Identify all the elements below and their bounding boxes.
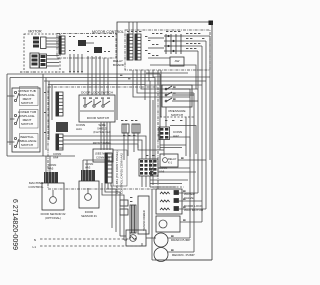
svg-text:SENSOR #1: SENSOR #1	[81, 214, 97, 218]
svg-text:AA2: AA2	[173, 134, 179, 138]
svg-text:6 2714820-0099: 6 2714820-0099	[11, 199, 18, 250]
svg-text:AA6: AA6	[159, 170, 165, 174]
svg-text:L1: L1	[33, 245, 37, 249]
svg-text:K-1: K-1	[168, 161, 173, 165]
svg-text:FRONT PANEL: FRONT PANEL	[93, 141, 112, 145]
svg-text:WAX MOTOR: WAX MOTOR	[184, 208, 204, 212]
svg-text:SWITCH: SWITCH	[21, 143, 33, 147]
svg-text:WIRE: WIRE	[98, 123, 105, 127]
svg-text:(OPTIONAL): (OPTIONAL)	[45, 216, 61, 220]
svg-text:BOARD: BOARD	[113, 63, 125, 67]
svg-text:CONTROL CARD) CONN AA2: CONTROL CARD) CONN AA2	[120, 153, 124, 194]
svg-text:SWITCH: SWITCH	[171, 113, 183, 117]
svg-text:AW: AW	[175, 59, 180, 63]
svg-text:DRAIN PUMP: DRAIN PUMP	[171, 238, 190, 242]
svg-text:RELAY: RELAY	[168, 157, 177, 161]
svg-text:VALVE: VALVE	[184, 196, 194, 200]
svg-text:DOOR SWITCH: DOOR SWITCH	[87, 116, 109, 120]
svg-text:AA3: AA3	[85, 166, 91, 170]
svg-text:DOOR LOCK SWITCH: DOOR LOCK SWITCH	[81, 91, 113, 95]
svg-text:CONN 4B1 (TO FRONT PANEL): CONN 4B1 (TO FRONT PANEL)	[115, 150, 119, 194]
svg-text:MOTOR: MOTOR	[28, 30, 42, 34]
svg-text:AA5: AA5	[48, 167, 54, 171]
svg-text:RECIRC. PUMP: RECIRC. PUMP	[172, 253, 195, 257]
svg-text:N: N	[34, 238, 36, 242]
svg-text:(Foil Side Out): (Foil Side Out)	[93, 130, 110, 134]
svg-text:SWITCH: SWITCH	[21, 122, 33, 126]
svg-text:TRANSFORMER: TRANSFORMER	[142, 210, 146, 231]
svg-text:SWITCH: SWITCH	[21, 101, 33, 105]
svg-text:AA1: AA1	[76, 127, 82, 131]
svg-text:MOTOR CONTROL: MOTOR CONTROL	[92, 30, 124, 34]
svg-text:AA4: AA4	[53, 156, 59, 160]
svg-text:CONN 4B3: CONN 4B3	[96, 156, 110, 160]
svg-text:CONTROL: CONTROL	[28, 185, 43, 189]
svg-text:SHIELD: SHIELD	[97, 127, 107, 131]
